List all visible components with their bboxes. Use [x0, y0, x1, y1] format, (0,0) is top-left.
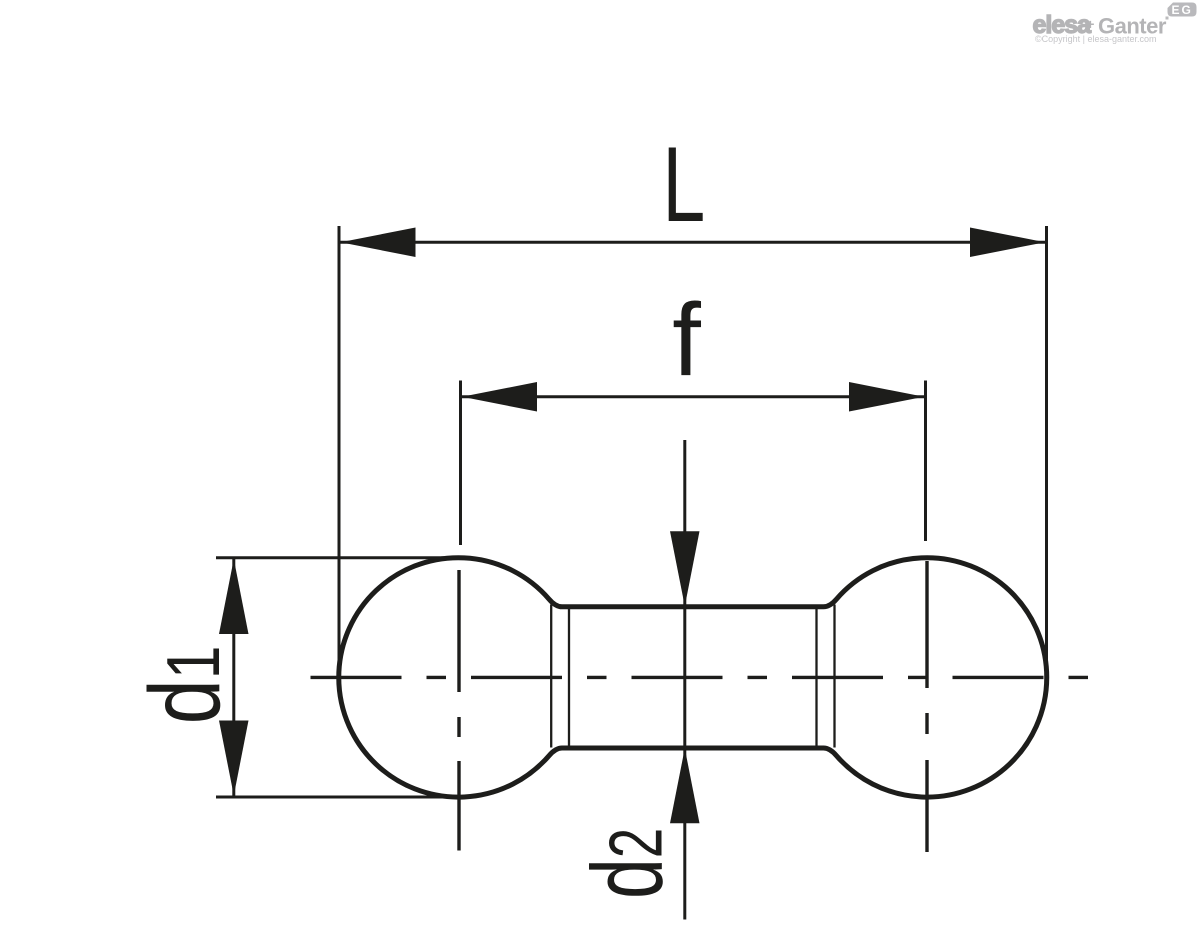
- dimension line L: [339, 241, 1047, 244]
- arrowhead d1 top: [219, 559, 249, 634]
- svg-text:f: f: [672, 282, 701, 397]
- extension line L left: [338, 226, 341, 668]
- neck edge line inner left: [568, 609, 570, 746]
- part silhouette: two balls with cylindrical neck: [339, 558, 1047, 797]
- logo EG badge: [1168, 3, 1197, 17]
- svg-text:+: +: [1086, 16, 1094, 32]
- arrowhead d2 top: [670, 531, 700, 606]
- arrowhead f left: [462, 382, 537, 412]
- dimension leader line d2: [683, 440, 686, 920]
- arrowhead d1 bottom: [219, 721, 249, 796]
- horizontal centerline: [311, 676, 1092, 679]
- svg-text:L: L: [662, 125, 705, 244]
- extension line f right: [924, 381, 927, 542]
- neck edge line outer left: [550, 605, 552, 748]
- arrowhead L left: [341, 228, 416, 258]
- extension line d1 top: [216, 556, 456, 559]
- extension line f left: [459, 381, 462, 546]
- svg-text:d2: d2: [571, 828, 683, 899]
- vertical centerline left ball: [457, 570, 460, 851]
- svg-text:©Copyright | elesa-ganter.com: ©Copyright | elesa-ganter.com: [1035, 34, 1157, 44]
- neck edge line inner right: [815, 609, 817, 746]
- neck edge line outer right: [833, 605, 835, 748]
- arrowhead f right: [849, 382, 924, 412]
- arrowhead d2 bottom: [670, 748, 700, 823]
- svg-text:d1: d1: [130, 645, 241, 724]
- arrowhead L right: [970, 228, 1045, 258]
- dimension line f: [461, 395, 926, 398]
- svg-text:G: G: [1182, 3, 1191, 17]
- logo registered mark: [1166, 17, 1169, 20]
- svg-text:E: E: [1172, 3, 1180, 17]
- extension line L right: [1045, 226, 1048, 668]
- dimension line d1: [232, 558, 235, 796]
- extension line d1 bottom: [216, 796, 456, 799]
- vertical centerline right ball: [925, 561, 928, 852]
